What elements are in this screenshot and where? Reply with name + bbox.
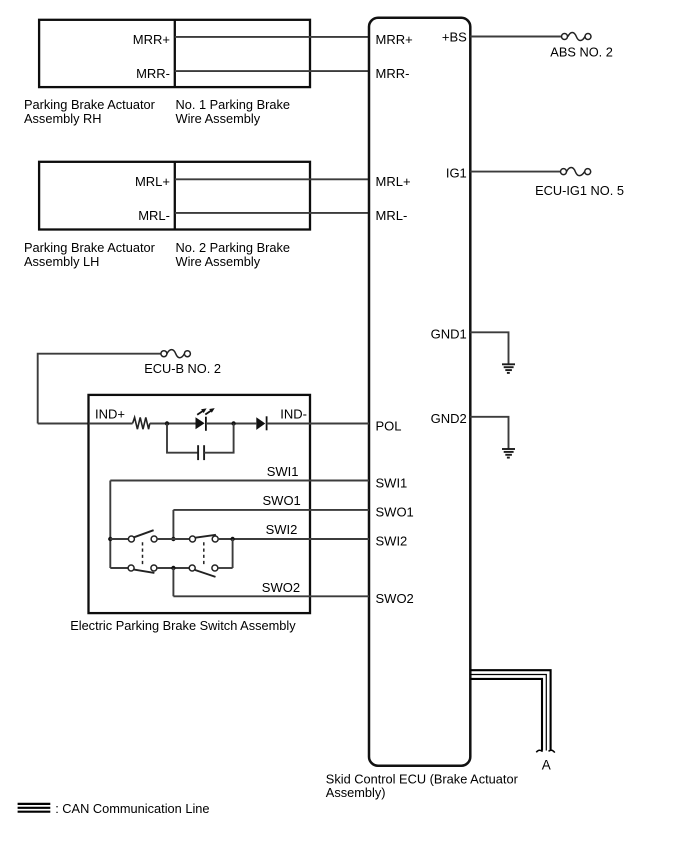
wire SWO2 vertical from lower row	[172, 568, 174, 596]
switch contact circle U3	[190, 536, 196, 542]
svg-text:+BS: +BS	[442, 30, 467, 45]
wire right vertical (rows link)	[232, 539, 234, 568]
junction node (SWO2 / lower row)	[171, 566, 175, 570]
svg-text:MRR+: MRR+	[133, 32, 170, 47]
switch blade lower-left	[134, 570, 154, 573]
switch contact circle L2	[151, 565, 157, 571]
wire IND+ to resistor	[89, 423, 133, 425]
svg-text:ECU-B NO. 2: ECU-B NO. 2	[144, 361, 221, 376]
junction node (SWI2 / right vertical)	[230, 537, 234, 541]
CAN bus break flare left	[536, 750, 542, 752]
svg-text:SWI1: SWI1	[376, 475, 408, 490]
LED (indicator)	[196, 408, 215, 431]
svg-text:SWI2: SWI2	[376, 533, 408, 548]
switch contact circle L3	[189, 565, 195, 571]
svg-text:IND+: IND+	[95, 406, 125, 421]
mechanical link dashed left	[142, 542, 144, 565]
switch contact circle L4	[212, 565, 218, 571]
wire lower row segment a	[110, 567, 128, 569]
svg-text:ECU-IG1 NO. 5: ECU-IG1 NO. 5	[535, 183, 624, 198]
svg-text:SWO2: SWO2	[376, 591, 414, 606]
switch contact circle U4	[212, 536, 218, 542]
wire upper row segment a	[110, 538, 128, 540]
mechanical link dashed right	[203, 542, 205, 565]
wire GND2	[470, 417, 508, 449]
ground GND2	[502, 449, 515, 458]
divider: No.1 wire assembly left edge	[174, 20, 176, 87]
svg-text:MRR-: MRR-	[376, 66, 410, 81]
capacitor C (parallel with LED)	[198, 445, 204, 460]
svg-text:IND-: IND-	[280, 406, 307, 421]
svg-text:SWO2: SWO2	[262, 580, 300, 595]
box: Electric Parking Brake Switch Assembly	[89, 395, 311, 613]
wire resistor to LED	[150, 423, 196, 425]
wire LED to diode	[206, 423, 256, 425]
junction node (LED anode / capacitor)	[165, 421, 169, 425]
svg-text:MRL+: MRL+	[376, 174, 411, 189]
svg-text:MRL+: MRL+	[135, 174, 170, 189]
wire IND- to ECU POL	[267, 423, 369, 425]
svg-text:MRR-: MRR-	[136, 66, 170, 81]
wire +BS to fuse	[470, 36, 561, 38]
diode (series, IND-)	[256, 416, 266, 430]
svg-text:GND1: GND1	[431, 326, 467, 341]
junction node (SWO1 / upper row)	[171, 537, 175, 541]
wire upper row segment b	[157, 538, 190, 540]
CAN bus break flare right	[549, 750, 555, 752]
svg-text:SWI2: SWI2	[266, 522, 298, 537]
svg-text:SWO1: SWO1	[376, 505, 414, 520]
wire MRL+ to ECU	[175, 178, 369, 180]
wire MRL- to ECU	[175, 212, 369, 214]
wire upper row segment c / SWI2 to ECU	[218, 538, 369, 540]
wire SWO1 vertical to upper row	[172, 510, 174, 539]
legend CAN symbol bars	[18, 804, 51, 812]
fuse ABS NO. 2	[562, 32, 592, 40]
ECU box: Skid Control ECU (Brake Actuator Assembly)	[369, 18, 470, 766]
capacitor branch right wire	[204, 424, 234, 453]
junction node (LED cathode / capacitor)	[231, 421, 235, 425]
junction node (common / upper row)	[108, 537, 112, 541]
fuse ECU-B NO. 2	[161, 350, 191, 358]
svg-text:MRL-: MRL-	[138, 208, 170, 223]
wire IG1 to fuse	[470, 171, 560, 173]
wire SWI1 to ECU	[110, 480, 369, 482]
fuse ECU-IG1 NO. 5	[561, 168, 591, 176]
divider: No.2 wire assembly left edge	[174, 162, 176, 230]
switch blade lower-right	[195, 570, 215, 577]
svg-text:A: A	[542, 758, 551, 773]
box: Parking Brake Actuator Assembly LH	[39, 162, 310, 230]
wire MRR+ to ECU	[175, 36, 369, 38]
wire ECU-B vertical feed	[38, 354, 161, 424]
svg-text:MRR+: MRR+	[376, 32, 413, 47]
svg-text:SWO1: SWO1	[263, 493, 301, 508]
box: Parking Brake Actuator Assembly RH	[39, 20, 310, 87]
CAN bus line outer	[470, 670, 550, 750]
ground GND1	[502, 364, 515, 373]
svg-text:: CAN Communication Line: : CAN Communication Line	[55, 801, 209, 816]
svg-text:MRL-: MRL-	[376, 208, 408, 223]
wire SWO2 to ECU	[173, 595, 369, 597]
wire lower row segment b	[157, 567, 190, 569]
svg-text:ABS NO. 2: ABS NO. 2	[550, 45, 613, 60]
switch blade upper-right	[195, 535, 216, 538]
wire SWO1 to ECU	[173, 509, 369, 511]
switch contact circle L1	[128, 565, 134, 571]
resistor (IND circuit)	[133, 417, 150, 429]
wire switch common vertical	[109, 481, 111, 569]
svg-text:SWI1: SWI1	[267, 464, 299, 479]
switch blade upper-left	[134, 530, 154, 537]
switch contact circle U1	[128, 536, 134, 542]
svg-text:POL: POL	[376, 418, 402, 433]
svg-text:Electric Parking Brake Switch: Electric Parking Brake Switch Assembly	[70, 618, 296, 633]
svg-text:IG1: IG1	[446, 166, 467, 181]
svg-text:GND2: GND2	[431, 411, 467, 426]
capacitor branch left wire	[167, 424, 198, 453]
CAN bus line inner	[470, 679, 542, 751]
wire lower row segment c	[218, 567, 233, 569]
wire MRR- to ECU	[175, 70, 369, 72]
switch contact circle U2	[151, 536, 157, 542]
wire into switch box (IND+ feed)	[38, 423, 89, 425]
wire GND1	[470, 332, 508, 364]
CAN bus line middle	[470, 675, 546, 751]
